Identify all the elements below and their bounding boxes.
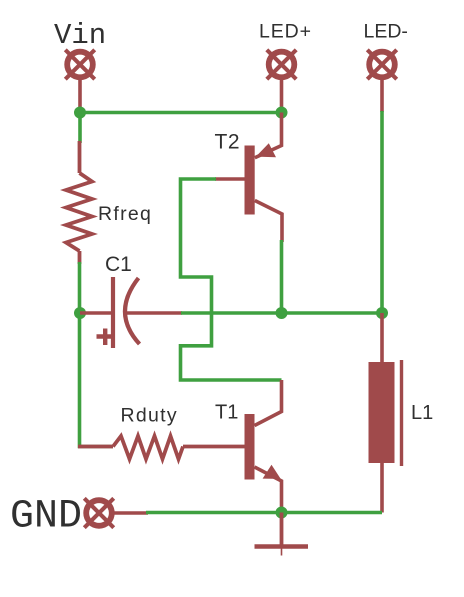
- junction dot bottom: [276, 507, 288, 519]
- terminal Vin: [65, 50, 94, 79]
- wire LED- vertical (green): [380, 111, 384, 313]
- resistor Rduty: [78, 436, 245, 459]
- inductor L1 body: [369, 362, 395, 463]
- ground symbol bar: [255, 544, 309, 548]
- wire Vin terminal stub (red): [78, 78, 82, 111]
- svg-text:GND: GND: [10, 495, 82, 540]
- svg-text:Vin: Vin: [54, 19, 106, 52]
- wire Rfreq to C1 junction and down to Rduty (green): [80, 262, 114, 447]
- svg-text:Rduty: Rduty: [121, 405, 178, 427]
- wire bottom horizontal (green): [146, 511, 382, 515]
- wire C1 to right column (green): [181, 311, 382, 315]
- junction dot at LED+ column: [276, 107, 288, 119]
- transistor T2 emitter arrow: [256, 143, 276, 157]
- transistor T2 base bar: [245, 146, 255, 215]
- transistor T2 collector: [255, 201, 282, 243]
- junction dot middle column: [276, 307, 288, 319]
- svg-text:L1: L1: [411, 402, 433, 424]
- wire T2 base stub (red): [215, 177, 246, 181]
- wire Vin vertical to Rfreq (green): [78, 108, 82, 143]
- wire LED+ terminal stub (red): [280, 78, 284, 113]
- inductor L1 side line: [400, 360, 403, 466]
- transistor T1 collector (from jog wire): [255, 380, 282, 426]
- terminal LED+: [267, 50, 296, 79]
- resistor Rfreq: [66, 141, 92, 264]
- junction dot at Vin column: [74, 107, 86, 119]
- wire LED- terminal stub (red): [380, 78, 384, 113]
- svg-text:T2: T2: [215, 131, 241, 154]
- ground symbol lower stub: [281, 548, 283, 556]
- junction dot at C1 left: [74, 307, 86, 319]
- wire T2 collector down (green): [280, 240, 284, 313]
- terminal LED-: [367, 50, 396, 79]
- svg-text:LED+: LED+: [259, 21, 312, 43]
- transistor T1 base bar: [245, 414, 255, 480]
- svg-text:LED-: LED-: [364, 21, 408, 43]
- svg-text:T1: T1: [215, 402, 238, 424]
- terminal GND: [84, 498, 113, 527]
- junction dot right column: [376, 307, 388, 319]
- wire top horizontal Vin to LED+ (green): [80, 111, 282, 115]
- wire T2 base jog to T1 collector (green): [181, 179, 282, 380]
- transistor T2 emitter (to LED+ junction, PNP arrow): [255, 113, 282, 158]
- svg-text:Rfreq: Rfreq: [98, 203, 152, 225]
- wire L1 top (red): [380, 313, 384, 363]
- wire GND terminal stub (red): [113, 511, 148, 515]
- wire L1 bottom (red): [380, 462, 384, 513]
- ground symbol stem: [280, 513, 284, 549]
- transistor T1 emitter (NPN arrow): [255, 467, 282, 512]
- transistor T1 emitter arrow: [263, 465, 281, 479]
- svg-text:C1: C1: [105, 253, 132, 276]
- capacitor C1: [80, 277, 182, 348]
